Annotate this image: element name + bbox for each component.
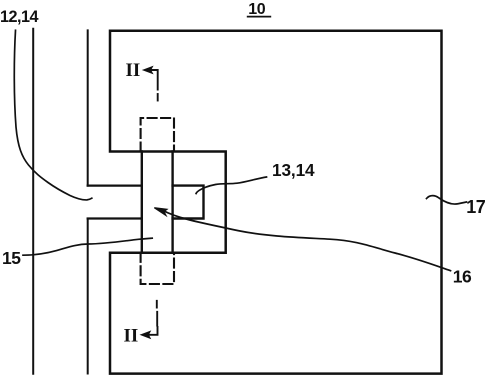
leader line for 12,14 (14, 30, 92, 200)
strip conductor vertical bar right edge (171, 152, 173, 253)
label 16 (453, 267, 472, 287)
label 17 (466, 197, 486, 217)
label 13,14 (272, 160, 315, 180)
section marker II top text (126, 60, 141, 81)
svg-text:12,14: 12,14 (0, 8, 39, 26)
feed line 12,14 right vertical upper (87, 30, 89, 185)
underline of label 10 (248, 16, 271, 18)
svg-text:16: 16 (453, 267, 472, 287)
section marker II top arrow shaft and corner (146, 70, 158, 90)
squiggle leader for 17 (427, 196, 467, 204)
svg-text:15: 15 (2, 248, 21, 268)
connection strip upper edge (88, 185, 142, 187)
leader line for 16 (163, 211, 451, 271)
leader line for 13,14 (196, 177, 266, 194)
arrowhead for 16 pointing at strip (154, 208, 167, 216)
connection strip lower edge (88, 217, 142, 219)
svg-text:10: 10 (248, 1, 265, 18)
dashed hidden strip outline (top) (141, 118, 174, 152)
leader line for 15 (23, 238, 152, 255)
dashed hidden strip outline (bottom) (141, 253, 174, 284)
feed line 12,14 left vertical (32, 29, 34, 374)
feed line 12,14 right vertical lower (87, 219, 89, 374)
strip conductor vertical bar left edge (141, 152, 143, 253)
section marker II bottom corner (146, 327, 158, 335)
section marker II bottom arrowhead (141, 332, 150, 339)
label 15 (2, 248, 21, 268)
svg-text:13,14: 13,14 (272, 160, 315, 180)
section marker II bottom text (124, 326, 139, 347)
section marker II top arrowhead (144, 67, 153, 74)
svg-text:17: 17 (466, 197, 486, 217)
section line top dash (157, 94, 159, 101)
small box 13,14 (173, 186, 204, 219)
section line bottom dashes (156, 301, 158, 326)
plate 17 outline with left notch (110, 31, 442, 374)
svg-text:II: II (124, 326, 139, 347)
label 10 (248, 1, 265, 18)
label 12,14 (0, 8, 39, 26)
svg-text:II: II (126, 60, 141, 81)
